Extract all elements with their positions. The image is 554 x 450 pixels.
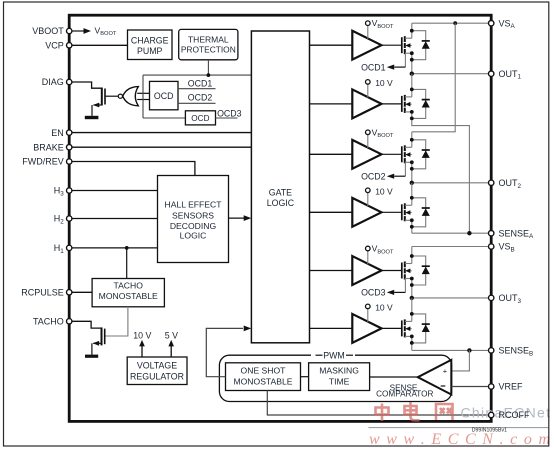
- pin OUT3: [489, 295, 494, 300]
- block THERMAL PROTECTION: [179, 29, 238, 59]
- ground symbol below Q2: [85, 355, 98, 358]
- svg-text:DECODING: DECODING: [170, 221, 217, 231]
- svg-text:OCD2: OCD2: [188, 92, 213, 102]
- supply bias VBOOT circle for driver U5: [367, 135, 369, 148]
- wire M1 drain to VSA rail: [411, 23, 413, 38]
- wire OCD3 stub: [216, 117, 238, 119]
- svg-text:MONOSTABLE: MONOSTABLE: [99, 291, 158, 301]
- junction M5 source/diode: [410, 283, 414, 287]
- driver buffer U6 triangle: [352, 198, 381, 227]
- junction SENSEA: [467, 231, 471, 235]
- svg-text:OCD3: OCD3: [361, 288, 386, 298]
- driver buffer U7 triangle: [352, 256, 381, 285]
- wire VSA branch to bridge 2: [412, 23, 455, 132]
- junction M2 source/diode: [410, 117, 414, 121]
- svg-text:FWD/REV: FWD/REV: [22, 157, 64, 167]
- wire RCOFF to one shot monostable: [267, 391, 491, 416]
- pin TACHO: [67, 319, 72, 324]
- pin SENSEB: [489, 348, 494, 353]
- junction OUT2: [410, 181, 414, 185]
- svg-text:TIME: TIME: [329, 377, 350, 387]
- pin RCPULSE: [67, 290, 72, 295]
- IC block outer border: [69, 15, 491, 421]
- wire M2 drain from OUT1: [411, 74, 413, 97]
- signal tap OCD2 with arrow: [387, 162, 406, 179]
- wire H1 to hall decode: [72, 247, 158, 249]
- transistor Q1 DIAG open-drain MOSFET: [92, 88, 118, 116]
- svg-text:COMPARATOR: COMPARATOR: [376, 390, 433, 399]
- junction M4 source/diode: [410, 225, 414, 229]
- net SENSEA rail: [412, 232, 491, 234]
- svg-text:OCD: OCD: [191, 114, 209, 123]
- svg-text:HALL EFFECT: HALL EFFECT: [165, 200, 223, 210]
- junction M1 drain/diode: [410, 29, 414, 33]
- wire DIAG to Q1 drain: [72, 82, 102, 88]
- junction M1 source/diode: [410, 58, 414, 62]
- svg-text:RCPULSE: RCPULSE: [21, 288, 64, 298]
- svg-text:PWM: PWM: [323, 350, 345, 360]
- svg-text:10 V: 10 V: [133, 330, 151, 340]
- pin EN: [67, 130, 72, 135]
- pin VBOOT: [67, 28, 72, 33]
- net OUT1 rail: [412, 73, 491, 75]
- body diode D1: [412, 31, 430, 60]
- svg-text:OCD1: OCD1: [361, 62, 386, 72]
- svg-text:MONOSTABLE: MONOSTABLE: [233, 377, 292, 387]
- signal tap OCD3 with arrow: [387, 279, 406, 296]
- svg-text:OCD1: OCD1: [188, 78, 213, 88]
- svg-text:THERMAL: THERMAL: [188, 34, 229, 44]
- block PWM rounded group: [219, 355, 451, 401]
- net VSB rail: [412, 246, 491, 248]
- wire FWD/REV to hall decode: [72, 162, 195, 176]
- svg-text:TACHO: TACHO: [33, 317, 64, 327]
- wire thermal protection to OCD/gate-logic net: [207, 60, 209, 75]
- junction H1 to tacho monostable: [125, 246, 129, 250]
- driver buffer U5 triangle: [352, 140, 381, 169]
- svg-text:ONE SHOT: ONE SHOT: [241, 366, 287, 376]
- pin BRAKE: [67, 145, 72, 150]
- pin VSB: [489, 244, 494, 249]
- wire EN to gate logic: [72, 132, 251, 134]
- block OCD (small): [185, 111, 215, 125]
- body diode D6: [412, 314, 430, 343]
- svg-text:VOLTAGE: VOLTAGE: [137, 361, 177, 371]
- wire RCPULSE to tacho monostable: [72, 291, 92, 293]
- junction M3 source/diode: [410, 167, 414, 171]
- wire gate logic to driver U5: [310, 153, 353, 155]
- net OUT3 rail: [412, 297, 491, 299]
- comparator U9 SENSE COMPARATOR triangle: [418, 360, 452, 395]
- power MOSFET M6: [382, 319, 412, 337]
- junction M4 drain/diode: [410, 196, 414, 200]
- driver buffer U8 triangle: [352, 314, 381, 343]
- wire one shot to masking time: [301, 376, 309, 378]
- wire M6 source to SENSEB: [411, 336, 413, 350]
- pin OUT1: [489, 71, 494, 76]
- junction OUT1: [410, 72, 414, 76]
- wire M1 source to OUT1: [411, 53, 413, 73]
- svg-text:VBOOT: VBOOT: [32, 26, 64, 36]
- wire M3 drain from VSA branch: [411, 132, 413, 148]
- body diode D5: [412, 256, 430, 285]
- wire tacho monostable output to Q2 gate: [105, 307, 128, 336]
- wire H2 to hall decode: [72, 218, 158, 220]
- wire gate logic to driver U6: [310, 211, 353, 213]
- svg-text:DIAG: DIAG: [42, 77, 64, 87]
- wire H3 to hall decode: [72, 190, 158, 192]
- wire masking time to comparator output: [370, 376, 418, 378]
- pin VSA: [489, 21, 494, 26]
- pin DIAG: [67, 79, 72, 84]
- wire TACHO to Q2 drain: [72, 321, 102, 328]
- junction M3 source bar: [410, 160, 414, 164]
- ground symbol below Q1: [85, 116, 99, 119]
- wire OCD net to gate logic: [143, 74, 251, 76]
- junction OUT3: [410, 296, 414, 300]
- wire H1 branch down to tacho monostable: [126, 248, 128, 279]
- svg-text:CHARGE: CHARGE: [131, 36, 169, 46]
- net SENSEB rail: [412, 349, 491, 351]
- svg-text:10 V: 10 V: [375, 303, 393, 313]
- power MOSFET M5: [382, 262, 412, 280]
- svg-text:+: +: [443, 367, 448, 376]
- wire M3 source to OUT2: [411, 162, 413, 183]
- net OUT2 rail: [412, 182, 491, 184]
- gate U2 NOR driving Q1 (mirrored OR with bubble): [118, 87, 149, 106]
- wire gate logic to driver U4: [310, 103, 353, 105]
- svg-text:PROTECTION: PROTECTION: [181, 44, 236, 54]
- body diode D3: [412, 140, 430, 169]
- block ONE SHOT MONOSTABLE: [226, 363, 301, 391]
- pin H2: [67, 216, 72, 221]
- wire VREF to comparator - input: [451, 386, 491, 388]
- pin H1: [67, 245, 72, 250]
- wire M5 drain from VSB: [411, 247, 413, 264]
- label PWM with dashes: [316, 354, 323, 356]
- pin RCOFF: [489, 412, 494, 417]
- transistor Q2 TACHO open-drain MOSFET: [92, 327, 105, 354]
- junction M3 drain/diode: [410, 138, 414, 142]
- wire M2 source to SENSEA collector: [412, 112, 470, 233]
- supply bias 10V circle for driver U6: [367, 193, 369, 206]
- svg-text:BRAKE: BRAKE: [33, 142, 64, 152]
- junction M2 source bar: [410, 110, 414, 114]
- wire OCD net down leg: [142, 75, 144, 118]
- pin OUT2: [489, 180, 494, 185]
- svg-text:MASKING: MASKING: [319, 366, 359, 376]
- supply bias 10V circle for driver U4: [367, 84, 369, 97]
- supply bias 10V circle for driver U8: [367, 309, 369, 322]
- power MOSFET M1: [382, 36, 412, 54]
- body diode D4: [412, 198, 430, 227]
- svg-text:10 V: 10 V: [375, 187, 393, 197]
- pin VREF: [489, 384, 494, 389]
- power MOSFET M3: [382, 145, 412, 163]
- wire VBOOT internal arrow: [72, 30, 84, 32]
- svg-text:GATE: GATE: [269, 188, 292, 198]
- wire to small OCD block: [143, 117, 185, 119]
- wire M6 drain from OUT3: [411, 298, 413, 322]
- wire M4 drain from OUT2: [411, 183, 413, 206]
- pin SENSEA: [489, 231, 494, 236]
- wire 10V regulator output arrow: [141, 345, 143, 357]
- wire BRAKE to gate logic: [72, 146, 251, 148]
- wire 5V regulator output arrow: [170, 345, 172, 357]
- wire PWM feedback to gate logic with arrow: [206, 328, 243, 376]
- pin VCP: [67, 43, 72, 48]
- svg-text:REGULATOR: REGULATOR: [130, 371, 184, 381]
- junction M5 source bar: [410, 277, 414, 281]
- junction M5 drain/diode: [410, 254, 414, 258]
- body diode D2: [412, 89, 430, 118]
- driver buffer U4 triangle: [352, 89, 381, 118]
- block GATE LOGIC: [251, 31, 309, 343]
- svg-text:LOGIC: LOGIC: [180, 231, 207, 241]
- wire gate logic to driver U8: [310, 327, 353, 329]
- junction M6 source/diode: [410, 341, 414, 345]
- svg-text:TACHO: TACHO: [113, 281, 143, 291]
- svg-text:10 V: 10 V: [375, 78, 393, 88]
- wire M5 source to OUT3: [411, 279, 413, 298]
- svg-text:LOGIC: LOGIC: [267, 198, 295, 208]
- junction M6 drain/diode: [410, 312, 414, 316]
- supply bias VBOOT circle for driver U7: [367, 251, 369, 264]
- wire SENSEB to comparator + input: [451, 350, 469, 371]
- junction M4 source bar: [410, 218, 414, 222]
- svg-text:OCD2: OCD2: [361, 171, 386, 181]
- supply bias VBOOT circle for driver U3: [367, 26, 369, 39]
- wire gate logic to driver U3: [310, 44, 353, 46]
- junction VSA branch: [453, 21, 457, 25]
- wire hall decode output arrow to gate logic: [229, 217, 246, 219]
- junction M6 source bar: [410, 335, 414, 339]
- driver buffer U3 triangle: [352, 31, 381, 60]
- power MOSFET M4: [382, 203, 412, 221]
- pin FWD/REV: [67, 159, 72, 164]
- pin H3: [67, 188, 72, 193]
- wire VCP to charge pump: [72, 44, 128, 46]
- watermark chinese characters zhong dian wang: [376, 402, 453, 421]
- wire OCD1 stub: [178, 88, 216, 90]
- block OCD (main): [150, 81, 179, 109]
- block TACHO MONOSTABLE: [92, 279, 164, 307]
- wire M4 source to SENSEA: [411, 220, 413, 233]
- signal tap OCD1 with arrow: [387, 53, 406, 69]
- wire gate logic to driver U7: [310, 270, 353, 272]
- svg-text:EN: EN: [51, 128, 64, 138]
- svg-text:RCOFF: RCOFF: [499, 410, 530, 420]
- junction thermal/OCD net: [207, 73, 211, 77]
- block HALL EFFECT SENSORS DECODING LOGIC: [158, 176, 229, 263]
- power MOSFET M2: [382, 95, 412, 113]
- svg-text:VCP: VCP: [45, 41, 64, 51]
- block VOLTAGE REGULATOR: [127, 357, 187, 385]
- svg-text:SENSORS: SENSORS: [172, 210, 214, 220]
- block CHARGE PUMP: [128, 30, 173, 60]
- block MASKING TIME: [309, 363, 370, 391]
- junction SENSEB to comparator: [467, 348, 471, 352]
- net VSA rail: [412, 22, 491, 24]
- junction M2 drain/diode: [410, 88, 414, 92]
- svg-text:OCD3: OCD3: [217, 108, 242, 118]
- wire OCD2 stub: [178, 102, 216, 104]
- svg-text:PUMP: PUMP: [137, 46, 163, 56]
- svg-text:VREF: VREF: [499, 382, 524, 392]
- svg-text:OCD: OCD: [154, 91, 174, 101]
- junction M1 source bar: [410, 51, 414, 55]
- svg-text:5 V: 5 V: [165, 330, 178, 340]
- watermark underline: [369, 427, 549, 429]
